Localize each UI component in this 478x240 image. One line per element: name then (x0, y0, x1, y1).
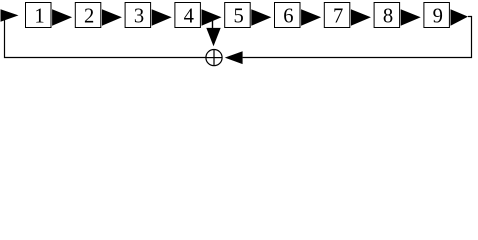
arrowhead cell9 output (451, 9, 469, 26)
arrowhead cell3 to cell4 (152, 9, 172, 26)
register cell 2 (75, 3, 101, 28)
svg-text:3: 3 (134, 5, 144, 27)
svg-text:7: 7 (333, 5, 343, 27)
register cell 8 (374, 3, 400, 28)
svg-text:4: 4 (184, 5, 194, 27)
register cell 7 (324, 3, 350, 28)
svg-text:1: 1 (34, 5, 44, 27)
svg-text:5: 5 (233, 5, 243, 27)
xor plus horizontal stroke (206, 57, 222, 59)
wire xor output left to edge and up to input arrow (5, 15, 207, 57)
register cell 4 (175, 3, 201, 28)
arrowhead cell8 to cell9 (401, 9, 421, 26)
xor adder circle (206, 50, 222, 66)
input arrowhead into cell 1 (1, 9, 19, 22)
register cell 3 (125, 3, 151, 28)
register cell 5 (225, 3, 251, 28)
svg-text:2: 2 (84, 5, 94, 27)
arrowhead cell2 to cell3 (102, 9, 122, 26)
arrowhead tap down into xor (206, 28, 220, 46)
svg-text:6: 6 (283, 5, 293, 27)
tap wire from cell4-cell5 junction down (212, 17, 214, 30)
arrowhead cell1 to cell2 (52, 9, 72, 26)
register cell 1 (26, 3, 52, 28)
arrowhead feedback into xor right side (225, 51, 243, 64)
svg-text:9: 9 (433, 5, 443, 27)
xor plus vertical stroke (213, 50, 215, 66)
register cell 9 (424, 3, 450, 28)
wire from cell9 output arrow to top right corner, down right side, left to xor (243, 17, 472, 58)
register cell 6 (275, 3, 301, 28)
arrowhead cell7 to cell8 (351, 9, 371, 26)
arrowhead cell6 to cell7 (301, 9, 321, 26)
arrowhead cell5 to cell6 (251, 9, 271, 26)
svg-text:8: 8 (383, 5, 393, 27)
arrowhead cell4 to cell5 (202, 9, 222, 26)
